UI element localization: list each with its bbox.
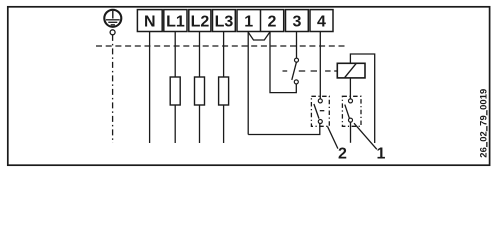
fuse F3 (219, 77, 229, 105)
relay coil K1 (337, 63, 365, 78)
wire thermostat 1 stub (350, 122, 352, 143)
terminal L2 (189, 10, 211, 32)
boundary dashed line (96, 45, 348, 47)
svg-text:2: 2 (268, 14, 277, 31)
contactor switch contact (292, 58, 299, 84)
terminal L3 (213, 10, 236, 32)
svg-text:1: 1 (244, 14, 253, 31)
leader line 2 (328, 126, 338, 148)
wire terminal 4 down (319, 32, 321, 100)
wire terminal 1 down (247, 32, 249, 135)
svg-text:N: N (144, 14, 156, 31)
fuse F1 (170, 77, 180, 105)
svg-text:26_02_79_0019: 26_02_79_0019 (478, 89, 489, 158)
svg-text:L1: L1 (166, 14, 185, 31)
protective earth symbol (104, 10, 121, 27)
thermostat 1 enclosure (dash-dot box) (342, 96, 361, 126)
earth terminal circle (110, 30, 115, 35)
leader line 1 (354, 123, 377, 149)
wire L2 (199, 32, 201, 144)
svg-text:3: 3 (293, 14, 302, 31)
terminal 3 (286, 10, 309, 32)
earth conductor dash-dot wire (112, 35, 114, 143)
wire terminal 2 down to switch (270, 32, 296, 93)
svg-text:1: 1 (377, 146, 386, 163)
thermostat 2 enclosure (dash-dot box) (311, 96, 329, 126)
wire bottom horizontal to thermostat 2 (248, 123, 320, 134)
wire relay top loop (350, 54, 374, 143)
fuse F2 (195, 77, 205, 105)
linkage dashed line to relay (283, 70, 338, 72)
terminal block 1-2 (237, 10, 284, 32)
wire L3 (223, 32, 225, 144)
svg-text:4: 4 (317, 14, 326, 31)
svg-text:L2: L2 (191, 14, 210, 31)
thermostat 2 contact (314, 99, 324, 124)
terminal L1 (164, 10, 187, 32)
terminal N (137, 10, 162, 32)
wire N (149, 32, 151, 144)
terminal 4 (310, 10, 333, 32)
svg-text:L3: L3 (215, 14, 234, 31)
wire L1 (174, 32, 176, 144)
wire terminal 3 to switch (296, 32, 298, 59)
wire relay bottom (349, 78, 351, 99)
bridge link terminals 1-2 (248, 32, 270, 40)
border frame (8, 7, 490, 165)
thermostat 1 contact (345, 99, 353, 122)
svg-text:2: 2 (338, 146, 347, 163)
